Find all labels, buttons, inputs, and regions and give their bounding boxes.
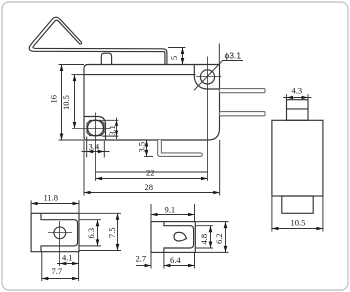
dimension 3.5 (terminal offset) [137,140,154,156]
svg-text:6.3: 6.3 [86,228,96,239]
terminal 2 (middle right) [220,112,266,116]
dimension 6.3 [79,220,101,246]
svg-text:3.5: 3.5 [137,142,147,153]
leader and label phi 3.1 [194,51,243,91]
svg-text:4.3: 4.3 [292,85,303,95]
dimension 11.8 [31,193,79,214]
mounting hole boss (bottom left of body) [84,117,106,141]
pivot hole circle [200,70,214,84]
dimension 22 [96,168,208,181]
switch body (main top view) [84,65,220,141]
dimension 5 (lever height) [168,48,186,65]
bracket hole [54,227,66,239]
svg-text:ϕ3.1: ϕ3.1 [225,51,242,61]
svg-text:16: 16 [49,95,59,104]
dimension 4.8 [195,226,213,248]
dimension 10.5 [272,196,323,232]
bracket outline [31,213,79,251]
dimension 9.1 [151,204,195,222]
dimension 6.4 [164,252,195,268]
svg-text:28: 28 [145,182,154,192]
dimension 3.1 (hole) [102,118,119,140]
svg-text:10.5: 10.5 [61,95,71,110]
bracket hole centerlines [48,221,72,266]
extension line above body right edge [218,44,220,65]
dimension 6.2 [195,222,228,253]
svg-text:7.5: 7.5 [107,227,117,238]
dimension 4.1 [57,252,79,281]
dimension 10.5 [61,75,84,129]
terminal teardrop hole [174,232,187,241]
svg-text:9.1: 9.1 [165,204,176,214]
svg-text:3.4: 3.4 [89,142,100,152]
terminal 3 (L-shaped bottom) [158,140,203,156]
svg-text:11.8: 11.8 [44,193,59,203]
svg-text:6.4: 6.4 [170,255,181,265]
svg-text:10.5: 10.5 [291,217,306,227]
pivot centerlines [196,57,222,182]
side body [272,120,323,196]
dimension 7.7 [42,252,79,281]
plunger button (top view) [101,53,111,64]
mounting hole centerlines [72,113,111,182]
terminal 1 (upper right) [220,89,266,93]
side base tab [282,196,313,213]
mounting hole octagon [87,121,104,136]
pivot boss (top right) [194,65,219,90]
svg-text:6.2: 6.2 [214,233,224,244]
svg-text:4.8: 4.8 [199,234,209,245]
dimension 4.3 [283,85,312,100]
dimension 3.4 (boss width) [82,137,110,158]
lever arm (simulated roller loop + strip) [29,17,167,64]
dimension 7.5 [79,213,121,250]
svg-text:2.7: 2.7 [136,253,147,263]
terminal plate outline [151,222,195,253]
mounting hole circle [88,120,104,136]
dimension 28 [84,140,220,196]
svg-text:3.1: 3.1 [107,125,117,136]
svg-text:5: 5 [169,56,179,60]
dimension 16 [49,65,85,141]
svg-text:22: 22 [146,168,155,178]
svg-text:7.7: 7.7 [52,266,63,276]
svg-text:4.1: 4.1 [62,252,73,262]
side plunger cap [287,100,309,121]
dimension 2.7 [136,252,152,268]
